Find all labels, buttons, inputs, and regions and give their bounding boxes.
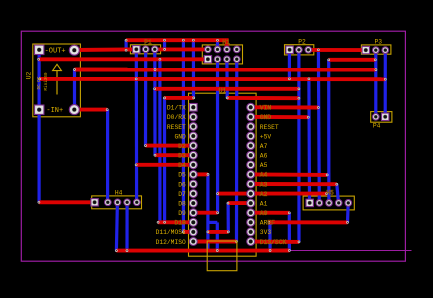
header P3 outline — [361, 45, 391, 54]
wire blue P2P3 via to H5.2 — [317, 50, 321, 203]
header H1 outline — [202, 45, 242, 64]
U1 right pin labels — [260, 105, 287, 246]
wire blue A1 via to 3V3 via — [227, 203, 230, 232]
wire blue T0 to P1H1 trace — [163, 40, 166, 49]
P4 pad 2 (square) — [382, 113, 389, 120]
wire blue H1.c3 to E2 via — [225, 59, 229, 98]
wire blue jog horizontal — [208, 221, 217, 224]
wire blue P3.3 to P4.2 — [384, 50, 387, 117]
svg-text:D9: D9 — [178, 210, 186, 217]
H4 pads — [91, 199, 140, 206]
P3 pad 1 (square) — [362, 46, 369, 53]
svg-text:D5: D5 — [178, 172, 186, 179]
wire red trace E2 — [227, 96, 299, 100]
wire red D13/SCK trace — [251, 240, 299, 244]
svg-text:RESET: RESET — [260, 124, 279, 131]
wire red D4 trace — [136, 163, 193, 167]
svg-text:P3: P3 — [375, 39, 383, 46]
svg-text:A5: A5 — [260, 162, 268, 169]
svg-text:A2: A2 — [260, 191, 268, 198]
svg-text:P2: P2 — [298, 39, 306, 46]
wire blue H1.c2 to A2/D9 vias — [216, 59, 219, 213]
wire red U2.IN+ stub — [75, 108, 108, 112]
svg-text:VIN: VIN — [260, 105, 272, 112]
wire red D12 stub — [193, 240, 236, 244]
wire red GND trace — [251, 115, 309, 119]
svg-text:P1: P1 — [144, 39, 152, 46]
svg-text:H5: H5 — [326, 190, 334, 197]
header P4 outline — [371, 112, 392, 123]
wire blue P1.1 to H4.5 — [135, 49, 139, 202]
wire blue T60 via to H5.3 — [327, 60, 330, 203]
U2 pad IN- (square) — [35, 105, 44, 114]
svg-text:H1: H1 — [222, 39, 230, 46]
U2 pad IN+ (round) — [69, 105, 79, 115]
svg-text:DC DC: DC DC — [37, 76, 42, 89]
svg-text:D12/MISO: D12/MISO — [156, 239, 186, 246]
H5 pads — [306, 199, 352, 206]
wire blue P2.2 long to D13 via — [297, 50, 300, 242]
wire red H4.1 stub — [39, 200, 95, 204]
svg-text:P4: P4 — [373, 122, 381, 129]
svg-text:Mini360: Mini360 — [44, 72, 49, 90]
module U1 outline — [189, 93, 257, 256]
U2 arrow — [53, 64, 62, 94]
wire blue H4.4 to bottom trace — [125, 202, 128, 250]
wire blue traceA to D10 via — [158, 59, 161, 222]
wire blue T0 to OUT+ trace — [124, 40, 127, 50]
svg-text:A4: A4 — [260, 172, 268, 179]
unplaced part outline — [207, 241, 237, 271]
svg-text:A3: A3 — [260, 181, 268, 188]
U1 pads — [189, 103, 254, 245]
svg-text:U1: U1 — [219, 88, 227, 95]
wire red A3 trace — [251, 182, 337, 186]
P4 pad 1 — [373, 114, 380, 121]
wire red A2 trace — [218, 192, 327, 196]
U1 left pin labels — [156, 105, 186, 246]
svg-text:D2: D2 — [178, 143, 186, 150]
svg-text:D13/SCK: D13/SCK — [260, 239, 287, 246]
P3 pad 3 — [382, 47, 389, 54]
svg-text:D1/TX: D1/TX — [167, 105, 186, 112]
wire red A0 trace — [251, 211, 290, 215]
wire red D9 stub — [193, 211, 217, 215]
svg-text:D6: D6 — [178, 181, 186, 188]
wire red P1.3 to H1.1t — [155, 47, 208, 51]
svg-text:D7: D7 — [178, 191, 186, 198]
P2 pad 2 — [296, 47, 303, 54]
wire blue AREF via to H5.5 — [346, 203, 350, 223]
svg-text:A1: A1 — [260, 200, 268, 207]
svg-text:+5V: +5V — [260, 133, 272, 140]
header P2 outline — [285, 45, 314, 55]
wire blue D5 via to bottom trace — [206, 174, 209, 250]
wire red trace B — [75, 68, 376, 72]
wire red trace C — [40, 77, 386, 81]
wire blue P1.3 to D3 via — [153, 49, 156, 155]
wire red A4 trace — [251, 172, 328, 176]
wire red D11 stub — [183, 230, 193, 234]
board outline — [21, 31, 405, 261]
svg-text:H4: H4 — [115, 189, 123, 196]
wire red 3V3 stub — [208, 230, 228, 234]
wire red A1 stub — [228, 201, 251, 205]
svg-text:U2: U2 — [26, 72, 33, 80]
wire blue U2.OUT- to H4 via — [37, 50, 40, 202]
P2 pad 3 — [305, 47, 312, 54]
header P1 outline — [130, 45, 160, 54]
wire red trace A — [39, 57, 208, 61]
svg-text:GND: GND — [174, 133, 186, 140]
wire blue IN+ via to H4.2 — [106, 110, 109, 203]
svg-text:D11/MOSI: D11/MOSI — [156, 229, 186, 236]
wire blue T0 to E1 end via — [192, 40, 195, 98]
wire blue P3.2 to P4.1 — [374, 50, 377, 117]
svg-text:D4: D4 — [178, 162, 186, 169]
wire red D5 stub — [193, 172, 208, 176]
wire blue jog to bottom trace — [216, 222, 219, 250]
svg-text:RESET: RESET — [167, 124, 186, 131]
wire red U2.OUT+ to P1.1 — [75, 47, 137, 51]
svg-text:A6: A6 — [260, 153, 268, 160]
wire red trace D — [155, 87, 299, 91]
H1 pads — [204, 46, 240, 63]
P1 pad 1 (square) — [133, 46, 140, 53]
wire red D2 trace — [146, 144, 194, 148]
wire blue H1.c2 top stub — [216, 40, 219, 49]
header H4 outline — [92, 196, 142, 209]
wire red T60 — [329, 58, 376, 62]
wire blue E1 via to D10 via — [163, 98, 166, 222]
P3 pad 2 — [373, 47, 380, 54]
board outline segment bottom — [290, 250, 412, 252]
wire red D3 trace — [155, 153, 193, 157]
svg-text:-OUT+: -OUT+ — [45, 48, 66, 56]
P1 pad 2 — [142, 46, 149, 53]
wire blue H1.c4 to D12 via — [235, 59, 239, 241]
wire blue P2.1 to traceC via — [288, 50, 291, 79]
P2 pad 1 (square) — [286, 46, 293, 53]
wire red trace E1 — [165, 96, 194, 100]
header H5 outline — [303, 196, 354, 210]
wire blue T0 to D11 via — [182, 40, 185, 232]
wire blue H4.3 to bottom trace — [116, 202, 117, 250]
wire red D10 trace — [158, 220, 193, 224]
svg-text:3V3: 3V3 — [260, 229, 272, 236]
wire red VIN trace — [251, 105, 319, 109]
module U2 outline — [33, 44, 81, 117]
wire red T0 top — [126, 40, 227, 49]
wire blue P1.2 to D2 via — [144, 49, 147, 145]
svg-text:D3: D3 — [178, 153, 186, 160]
svg-text:D0/RX: D0/RX — [167, 114, 186, 121]
svg-text:-IN+: -IN+ — [46, 107, 63, 115]
svg-text:EF: EF — [267, 220, 275, 227]
svg-text:GND: GND — [260, 114, 272, 121]
svg-text:D10: D10 — [174, 220, 186, 227]
svg-text:A7: A7 — [260, 143, 268, 150]
wire red AREF trace — [268, 220, 347, 224]
vias — [37, 39, 386, 252]
wire blue traceC to H5.1 — [307, 79, 311, 203]
wire blue AREF start to bottom trace — [268, 222, 271, 250]
U2 pad OUT- (square) — [35, 45, 44, 54]
wire blue U2.OUT+ net to IN+ — [73, 70, 76, 110]
wire red P2.3 to P3.1 — [308, 48, 366, 52]
svg-text:A0: A0 — [260, 210, 268, 217]
svg-text:D8: D8 — [178, 200, 186, 207]
wire blue A0 via to bottom trace — [288, 213, 291, 251]
wire blue A3 via to H5.4 — [337, 184, 339, 203]
U2 pad OUT+ (round) — [69, 45, 79, 55]
P1 pad 3 — [152, 46, 159, 53]
wire red bottom long trace — [116, 249, 289, 253]
